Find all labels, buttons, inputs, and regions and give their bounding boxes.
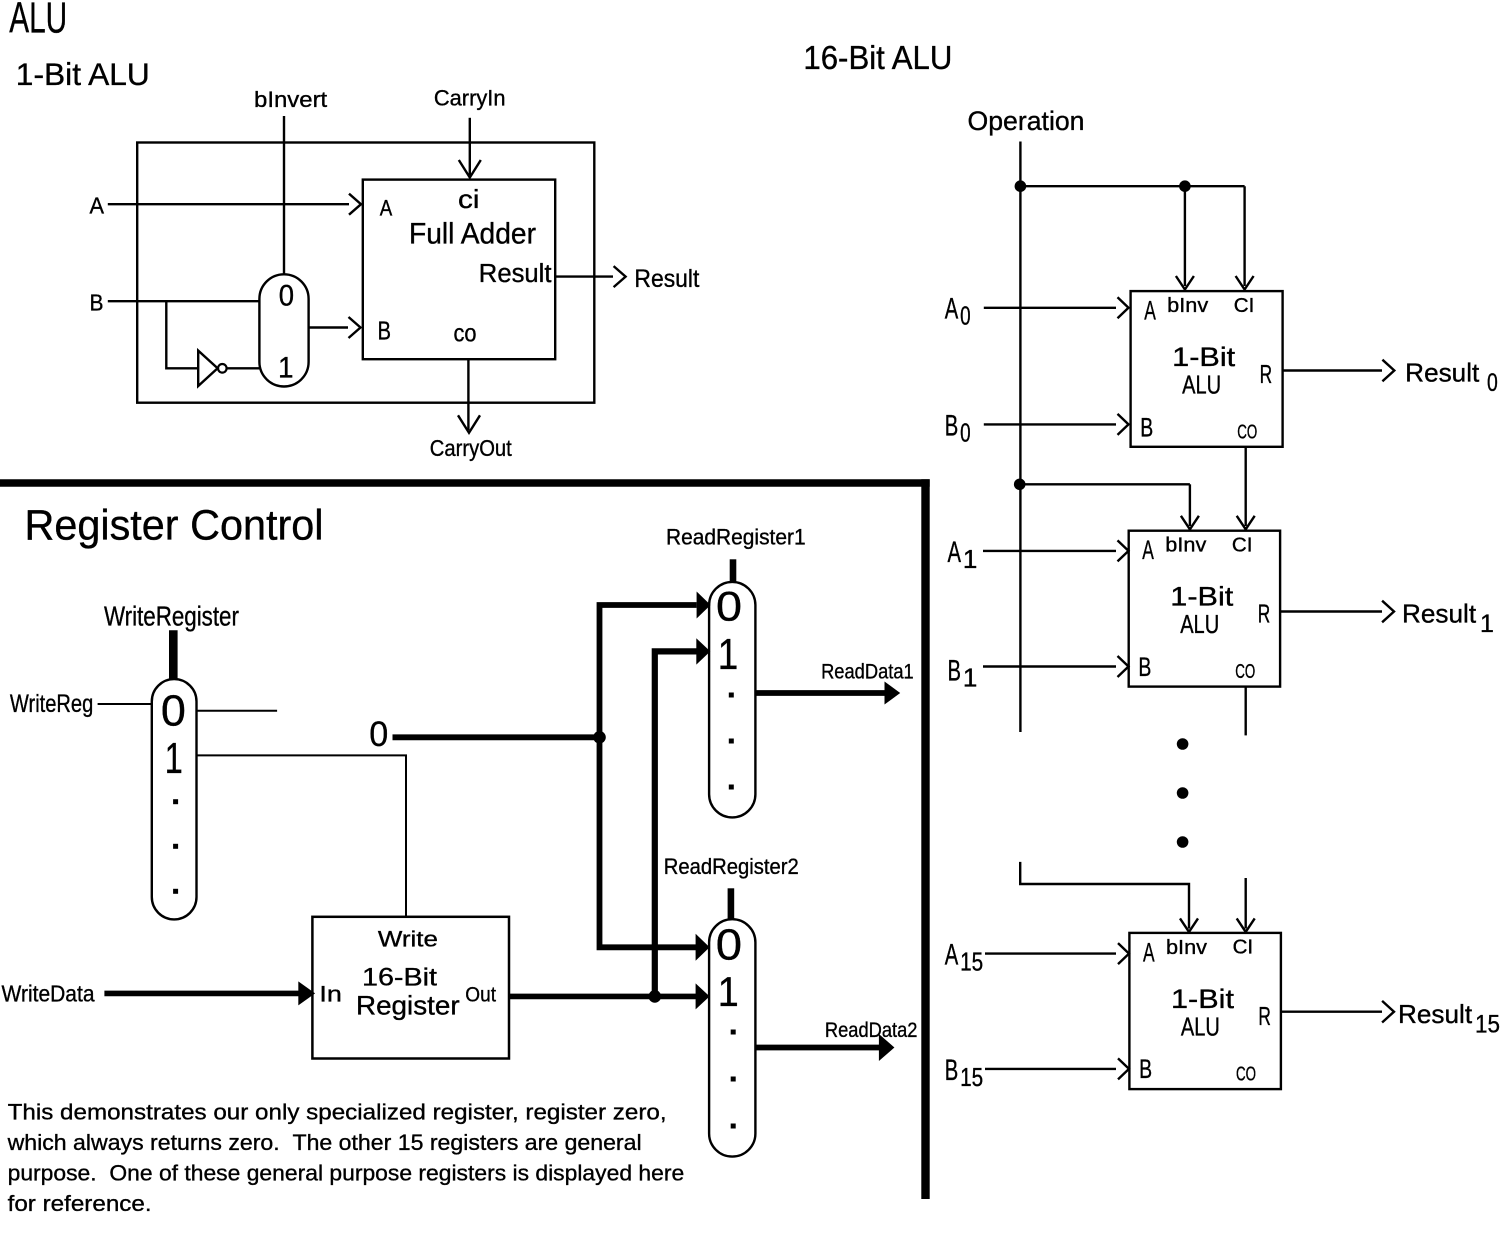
svg-text:1: 1 (718, 968, 739, 1015)
svg-text:which always returns zero. Th: which always returns zero. The other 15 … (7, 1130, 642, 1155)
svg-text:1: 1 (165, 735, 183, 783)
svg-text:1-Bit: 1-Bit (1172, 342, 1236, 372)
svg-text:1: 1 (278, 352, 294, 385)
svg-text:A: A (1144, 296, 1156, 326)
svg-text:co: co (454, 320, 477, 348)
svg-text:0: 0 (716, 922, 742, 970)
svg-text:B: B (1138, 652, 1151, 682)
svg-text:1-Bit ALU: 1-Bit ALU (16, 56, 150, 92)
svg-text:A: A (1143, 937, 1155, 967)
svg-text:Register Control: Register Control (25, 503, 324, 550)
svg-text:R: R (1260, 359, 1273, 389)
svg-text:1-Bit: 1-Bit (1170, 582, 1234, 612)
svg-text:Result: Result (479, 260, 552, 288)
svg-text:1: 1 (1480, 610, 1494, 638)
svg-text:R: R (1258, 1001, 1271, 1031)
svg-text:ci: ci (458, 184, 480, 214)
svg-text:CO: CO (1237, 422, 1257, 444)
svg-text:Write: Write (378, 927, 438, 952)
svg-text:1-Bit: 1-Bit (1171, 984, 1235, 1014)
svg-text:A: A (380, 195, 393, 220)
svg-text:A: A (90, 193, 105, 219)
svg-text:15: 15 (960, 946, 983, 976)
svg-text:In: In (319, 981, 342, 1006)
svg-text:WriteRegister: WriteRegister (104, 600, 239, 631)
svg-text:16-Bit ALU: 16-Bit ALU (803, 39, 952, 76)
svg-text:15: 15 (960, 1062, 983, 1092)
svg-text:Result: Result (1402, 599, 1477, 629)
svg-text:CarryIn: CarryIn (434, 86, 506, 111)
svg-text:WriteReg: WriteReg (10, 690, 93, 718)
svg-text:ALU: ALU (9, 0, 67, 42)
svg-text:WriteData: WriteData (2, 980, 95, 1006)
svg-text:0: 0 (960, 417, 971, 447)
svg-text:CI: CI (1232, 535, 1253, 557)
svg-text:bInv: bInv (1167, 295, 1208, 317)
svg-text:Result: Result (1398, 999, 1473, 1029)
svg-text:B: B (945, 409, 959, 442)
svg-text:Result: Result (1405, 358, 1480, 388)
svg-text:CO: CO (1236, 1063, 1256, 1085)
svg-text:B: B (90, 290, 104, 316)
svg-text:0: 0 (960, 301, 971, 331)
svg-text:B: B (945, 1054, 959, 1087)
svg-text:A: A (945, 293, 959, 326)
svg-text:1: 1 (963, 663, 977, 693)
svg-text:1: 1 (718, 631, 739, 679)
svg-text:B: B (378, 318, 392, 346)
svg-text:0: 0 (716, 583, 742, 630)
svg-text:ALU: ALU (1181, 1011, 1220, 1041)
svg-text:ALU: ALU (1180, 609, 1219, 639)
svg-text:16-Bit: 16-Bit (362, 963, 437, 991)
svg-text:ReadData1: ReadData1 (821, 660, 914, 684)
svg-text:ReadRegister1: ReadRegister1 (666, 524, 806, 549)
svg-text:A: A (945, 938, 959, 971)
svg-text:A: A (948, 536, 962, 569)
svg-text:B: B (1140, 412, 1153, 442)
svg-text:for reference.: for reference. (8, 1191, 152, 1216)
svg-text:This demonstrates our only spe: This demonstrates our only specialized r… (8, 1100, 667, 1125)
svg-text:bInv: bInv (1165, 535, 1206, 557)
svg-text:CI: CI (1234, 295, 1255, 317)
svg-text:CarryOut: CarryOut (430, 435, 513, 461)
svg-text:Out: Out (465, 983, 496, 1006)
svg-text:1: 1 (963, 544, 977, 574)
svg-text:R: R (1258, 599, 1271, 629)
svg-text:bInvert: bInvert (254, 87, 328, 112)
svg-text:Register: Register (356, 991, 460, 1021)
svg-text:B: B (948, 655, 962, 688)
svg-text:bInv: bInv (1166, 937, 1207, 959)
svg-text:0: 0 (279, 280, 294, 313)
svg-text:ReadRegister2: ReadRegister2 (664, 854, 799, 879)
svg-text:0: 0 (1487, 369, 1498, 397)
svg-text:Result: Result (634, 265, 699, 293)
svg-text:purpose. One of these general: purpose. One of these general purpose re… (8, 1161, 685, 1186)
svg-text:Full Adder: Full Adder (409, 217, 536, 250)
svg-text:A: A (1142, 535, 1154, 565)
svg-text:15: 15 (1475, 1010, 1500, 1038)
svg-text:CI: CI (1233, 937, 1254, 959)
svg-text:Operation: Operation (968, 106, 1085, 136)
svg-text:0: 0 (369, 714, 388, 754)
svg-text:ALU: ALU (1182, 370, 1221, 400)
svg-text:ReadData2: ReadData2 (825, 1018, 918, 1042)
svg-text:0: 0 (161, 688, 186, 736)
svg-text:CO: CO (1235, 661, 1255, 683)
svg-text:B: B (1139, 1054, 1152, 1084)
